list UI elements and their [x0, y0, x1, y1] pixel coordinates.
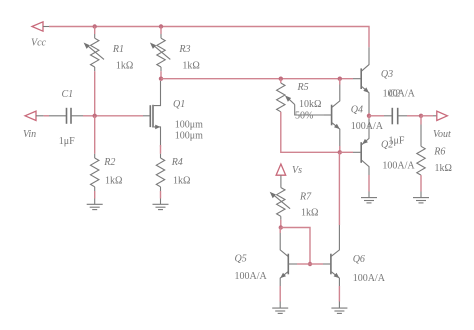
ground under R2 — [87, 199, 103, 210]
svg-text:Vout: Vout — [433, 129, 451, 140]
svg-text:100A/A: 100A/A — [353, 273, 386, 284]
node R5 top — [279, 77, 283, 81]
svg-text:1kΩ: 1kΩ — [435, 163, 452, 174]
svg-text:C1: C1 — [62, 89, 74, 100]
ground under Q6 — [331, 302, 347, 314]
svg-text:100A/A: 100A/A — [351, 121, 384, 132]
wire rail to Q6 base — [310, 263, 323, 265]
input connector Vs — [276, 164, 286, 188]
resistor R6 — [417, 146, 425, 175]
svg-text:R4: R4 — [171, 157, 183, 168]
svg-text:Vs: Vs — [292, 165, 302, 176]
resistor R3 — [150, 38, 170, 67]
svg-text:Q6: Q6 — [353, 254, 365, 265]
wire node to Q2 base — [340, 151, 353, 153]
svg-text:R5: R5 — [297, 82, 309, 93]
svg-text:1kΩ: 1kΩ — [182, 61, 199, 72]
input connector Vcc — [32, 22, 49, 31]
node R1 top — [93, 24, 97, 28]
node Vout / R6 — [419, 114, 423, 118]
potentiometer R5 — [277, 83, 324, 115]
wire Q2 collector to ground — [368, 175, 370, 192]
transistor Q1 (NMOS) — [143, 81, 161, 147]
transistor Q4 (NPN) — [324, 85, 340, 147]
wire R3 top lead — [160, 27, 162, 35]
svg-text:R3: R3 — [178, 44, 190, 55]
wire R7 node to base rail — [281, 228, 310, 265]
transistor Q2 (PNP) — [353, 119, 369, 175]
wire output node to C2 — [369, 115, 384, 117]
svg-text:100A/A: 100A/A — [235, 271, 268, 282]
wire Q5 collector — [279, 228, 281, 234]
wire Vcc rail — [49, 27, 369, 48]
svg-text:Q4: Q4 — [351, 105, 363, 116]
wire R7 bottom to mirror — [280, 216, 282, 220]
node output — [367, 114, 371, 118]
svg-text:C2: C2 — [389, 89, 401, 100]
node Q4 collector — [338, 77, 342, 81]
ground under R4 — [153, 199, 169, 210]
wire Q4 emitter to node — [339, 146, 341, 152]
transistor Q6 (NPN) — [323, 225, 339, 286]
svg-text:Q5: Q5 — [235, 254, 247, 265]
transistor Q5 (NPN mirrored) — [280, 243, 297, 286]
svg-text:Vcc: Vcc — [31, 38, 47, 49]
wire R2 to ground — [94, 187, 96, 191]
svg-text:100μm: 100μm — [175, 131, 203, 142]
wire Q3 emitter to output node — [368, 113, 370, 116]
svg-text:50%: 50% — [295, 111, 313, 122]
svg-text:100μm: 100μm — [175, 120, 203, 131]
wire Q1 source to R4 — [160, 145, 162, 154]
resistor R7 — [270, 188, 290, 217]
node R7 / Q5 collector — [279, 225, 283, 229]
node Q2 base rail — [338, 150, 342, 154]
wire R2 top lead — [94, 116, 96, 154]
svg-text:R6: R6 — [433, 147, 445, 158]
wire drain node to Q3 base — [161, 78, 353, 80]
wire R6 top lead — [420, 116, 422, 125]
ground under Q5 — [272, 302, 288, 314]
svg-text:Q1: Q1 — [173, 99, 185, 110]
node R3 top — [159, 24, 163, 28]
svg-text:1μF: 1μF — [389, 135, 405, 146]
wire R5 top lead — [280, 79, 282, 83]
resistor R2 — [91, 158, 99, 187]
wire R1 top lead — [94, 27, 96, 35]
resistor R1 — [84, 38, 104, 67]
svg-text:1kΩ: 1kΩ — [105, 176, 122, 187]
node Q5/Q6 base rail — [308, 262, 312, 266]
wire Q6 emitter to ground — [338, 286, 340, 302]
ground under R6 — [413, 192, 429, 203]
node Q1 drain / R3 — [159, 77, 163, 81]
wire R3 bottom to drain node — [160, 67, 162, 71]
wire C2 to Vout node — [407, 115, 421, 117]
capacitor C2 — [384, 108, 407, 125]
svg-text:10kΩ: 10kΩ — [299, 99, 321, 110]
svg-text:R2: R2 — [103, 157, 115, 168]
transistor Q3 (NPN) — [353, 47, 369, 113]
svg-text:R1: R1 — [112, 44, 124, 55]
svg-text:Vin: Vin — [23, 129, 36, 140]
wire Vin to C1 — [44, 115, 49, 117]
svg-text:100A/A: 100A/A — [382, 160, 415, 171]
svg-text:1kΩ: 1kΩ — [173, 176, 190, 187]
wire Q5 base to rail — [297, 263, 310, 265]
svg-text:R7: R7 — [299, 192, 312, 203]
input connector Vin — [25, 111, 44, 120]
wire Q2 emitter to output node — [368, 116, 370, 119]
node Vin / R2 — [93, 114, 97, 118]
wire Q6 collector to Q2 base rail — [338, 152, 340, 225]
ground under Q2 — [361, 192, 377, 203]
wire C1 to Q1 gate — [83, 115, 143, 117]
wire R6 to ground — [420, 175, 422, 191]
svg-text:Q3: Q3 — [381, 69, 393, 80]
wire R1 bottom to Vin node — [94, 67, 96, 71]
wire R5 bottom to Q2 base rail — [281, 112, 340, 153]
wire Q4 collector — [339, 79, 341, 85]
output connector Vout — [433, 111, 447, 120]
capacitor C1 — [49, 108, 83, 124]
svg-text:1kΩ: 1kΩ — [116, 61, 133, 72]
svg-text:1μF: 1μF — [59, 136, 75, 147]
svg-text:1kΩ: 1kΩ — [301, 208, 318, 219]
wire R4 to ground — [160, 187, 162, 191]
wire Q5 emitter to ground — [279, 286, 281, 302]
resistor R4 — [156, 158, 164, 187]
wire Vout lead — [421, 115, 433, 117]
